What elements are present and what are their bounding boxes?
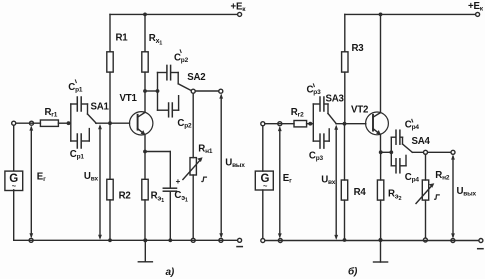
wire Rn2 top: [425, 154, 427, 180]
node Ce1 rail: [168, 238, 172, 242]
wire loop4 bottom right: [400, 165, 406, 167]
terminal Rn1 junction: [191, 89, 195, 93]
wire output b: [412, 151, 451, 153]
wire loop3 left vertical: [312, 104, 314, 141]
capacitor Cp2: [169, 103, 173, 117]
resistor Rn2 variable: [422, 180, 428, 200]
terminal Rn1 rail: [191, 238, 195, 242]
wire loop2 left vertical: [157, 73, 159, 111]
node R4 rail: [343, 238, 347, 242]
label minus b: [478, 248, 483, 250]
terminal input 1 a: [12, 121, 16, 125]
wire output a: [192, 90, 219, 92]
arrow Uvyx b: [452, 157, 454, 237]
svg-text:SA4: SA4: [412, 136, 431, 147]
switch SA2: [177, 73, 179, 84]
wire loop3 bottom branch: [313, 140, 319, 142]
wire loop2 top branch: [158, 72, 167, 74]
capacitor C'p3: [320, 97, 324, 111]
wire C'p1 to SA1 pivot: [82, 103, 88, 105]
wire bottom rail b: [265, 240, 479, 242]
terminal input 2 a: [30, 121, 34, 125]
label gamma a: [202, 177, 207, 181]
capacitor Cp3: [320, 134, 324, 148]
source G b: [262, 126, 264, 171]
wire R2 top: [109, 123, 111, 179]
svg-text:VT2: VT2: [351, 105, 368, 116]
wire Rn1 bottom: [192, 175, 194, 238]
capacitor C'p1: [77, 97, 81, 111]
node loop4 left: [389, 150, 393, 154]
node top rail b: [379, 13, 383, 17]
wire Rx1 top: [144, 14, 146, 51]
svg-text:R2: R2: [119, 191, 131, 202]
wire emitter to loop4: [381, 151, 392, 153]
arrow Uvx b: [335, 127, 337, 238]
wire Rg1 to node A: [58, 122, 70, 124]
node emitter b: [379, 150, 383, 154]
wire Re2 bottom: [380, 200, 382, 240]
arrow Uvx a: [99, 127, 101, 238]
capacitor Cp1: [77, 134, 81, 148]
wire R3 bottom: [344, 72, 346, 123]
wire Ce1 tap: [145, 151, 170, 153]
wire R4 top: [344, 124, 346, 180]
terminal +Ek b: [476, 12, 480, 16]
capacitor C'p2: [167, 65, 171, 79]
terminal +Ek a: [238, 12, 242, 16]
wire loop1 left vertical: [70, 104, 72, 141]
wire R3 top: [344, 14, 346, 51]
svg-text:VT1: VT1: [120, 93, 138, 104]
resistor Rx1: [142, 52, 148, 72]
svg-text:SA3: SA3: [326, 94, 345, 105]
arrow Uvyx a: [220, 96, 222, 237]
wire base a: [96, 122, 130, 124]
wire R4 bottom: [344, 200, 346, 240]
wire R1 top: [109, 14, 111, 51]
node Re2 rail: [378, 238, 382, 242]
resistor R4: [341, 180, 347, 200]
svg-text:SA2: SA2: [187, 72, 205, 83]
node A: [67, 121, 71, 125]
node base R1 R2: [108, 121, 112, 125]
wire loop4 bottom branch: [391, 165, 395, 167]
node R2 rail: [108, 238, 112, 242]
terminal Rn2 junction: [424, 150, 428, 154]
wire R1 bottom to base node: [109, 72, 111, 123]
terminal Eg bottom b: [278, 239, 282, 243]
capacitor Ce1: [163, 188, 176, 191]
resistor Rg1: [40, 120, 58, 126]
wire C'p4 to SA4 pivot: [400, 136, 402, 138]
svg-text:а): а): [166, 267, 175, 278]
wire loop2 bottom branch: [158, 109, 169, 111]
wire loop1 top branch: [71, 103, 77, 105]
wire loop2 bottom right: [173, 109, 179, 111]
wire top rail a: [110, 13, 238, 15]
svg-text:б): б): [348, 266, 358, 278]
wire top rail b: [345, 13, 476, 15]
wire Ce1 bottom: [169, 191, 171, 240]
transistor VT1: [130, 112, 153, 135]
node Re1 rail: [143, 238, 147, 242]
svg-text:R3: R3: [352, 43, 365, 54]
resistor R3: [342, 52, 348, 72]
wire Re1 bottom: [144, 200, 146, 240]
label minus a: [237, 246, 242, 248]
wire loop3 top branch: [313, 103, 319, 105]
transistor VT2: [366, 112, 389, 135]
wire loop1 bottom right: [82, 140, 90, 142]
node collector tap: [143, 89, 147, 93]
wire bottom rail a: [14, 239, 238, 241]
wire collector b: [380, 14, 382, 112]
wire loop1 bottom branch: [71, 140, 77, 142]
arrow Eg a: [30, 128, 32, 237]
wire collector tap to loop2: [145, 90, 158, 92]
wire input b: [265, 123, 294, 125]
terminal Eg bottom a: [29, 238, 33, 242]
terminal rail start b: [261, 239, 265, 243]
terminal Uvyx rail b: [451, 239, 455, 243]
wire C'p3 to SA3 pivot: [324, 103, 328, 105]
terminal rail end a: [238, 238, 242, 242]
wire loop4 top branch: [391, 136, 395, 138]
ground b: [380, 240, 382, 262]
source G a: [13, 125, 15, 170]
node top rail / Rx1 junction: [143, 13, 147, 17]
wire R2 bottom: [109, 200, 111, 240]
wire emitter b: [380, 134, 382, 152]
wire loop4 left vertical: [390, 137, 392, 166]
node emitter a: [143, 150, 147, 154]
terminal Uvyx rail a: [219, 238, 223, 242]
node B input: [308, 122, 312, 126]
capacitor C'p4: [396, 130, 400, 144]
wire Rx1 bottom / collector: [144, 72, 146, 112]
resistor Re2: [377, 180, 383, 200]
resistor Re1: [142, 179, 148, 200]
switch SA3: [327, 104, 329, 114]
label gamma b: [435, 195, 440, 199]
wire Re2 top: [380, 152, 382, 180]
wire input a: [16, 122, 41, 124]
ground a: [144, 240, 146, 261]
wire Rg2 to node: [307, 123, 314, 125]
terminal rail end b: [479, 239, 483, 243]
resistor R1: [107, 52, 113, 72]
switch SA1: [87, 104, 89, 114]
svg-text:R4: R4: [354, 187, 367, 198]
terminal input 2 b: [278, 122, 282, 126]
resistor R2: [107, 179, 113, 200]
terminal output a: [219, 89, 223, 93]
svg-text:+: +: [176, 177, 181, 186]
arrow Eg b: [279, 128, 281, 236]
terminal input 1 b: [261, 122, 265, 126]
terminal Rn2 rail: [423, 238, 427, 242]
wire loop3 bottom right: [324, 140, 329, 142]
wire emitter a: [144, 135, 146, 152]
svg-text:SA1: SA1: [91, 102, 110, 113]
wire base b: [336, 123, 366, 125]
node loop2 left: [156, 89, 160, 93]
terminal output b: [451, 150, 455, 154]
node base R3 R4: [343, 122, 347, 126]
switch SA4: [402, 137, 404, 144]
wire C'p2 to SA2 pivot: [171, 72, 178, 74]
wire Re1 top: [144, 152, 146, 180]
capacitor Cp4: [396, 159, 400, 173]
resistor Rg2: [294, 121, 307, 127]
svg-text:R1: R1: [116, 33, 129, 44]
resistor Rn1 variable: [190, 158, 196, 175]
wire Rn1 top: [192, 93, 194, 157]
wire Rn2 bottom: [425, 200, 427, 238]
